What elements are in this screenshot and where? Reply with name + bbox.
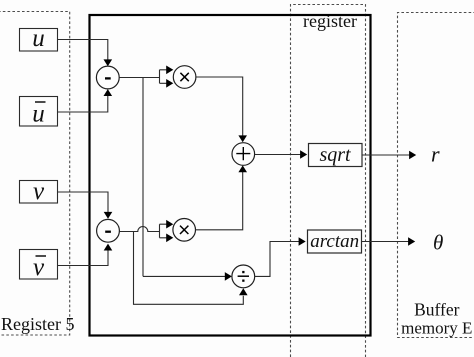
wire u-bar to subtractor S1 <box>58 96 108 113</box>
wire M1 output to adder <box>196 77 243 136</box>
svg-text:θ: θ <box>433 231 443 255</box>
Register 5 dashed box <box>0 12 70 336</box>
sqrt block <box>309 144 363 167</box>
svg-text:memory E: memory E <box>401 319 472 338</box>
multiplier M2 <box>173 219 196 242</box>
wire divider to arctan block <box>255 242 299 277</box>
register u box <box>20 29 58 52</box>
main processing box <box>90 15 371 336</box>
svg-text:v: v <box>33 178 45 205</box>
svg-text:r: r <box>431 142 440 167</box>
node T2 branch to divider bottom <box>134 232 244 305</box>
wire v to subtractor S2 <box>58 192 108 213</box>
adder A1 <box>232 143 255 166</box>
node T1 junction to divider line <box>142 78 144 277</box>
wire S2 output with hop over junction line <box>119 227 159 232</box>
svg-text:u: u <box>32 25 45 52</box>
subtractor S2 <box>97 219 120 242</box>
wire M2 output to adder bottom <box>196 172 243 230</box>
wire sqrt to output r <box>362 154 410 156</box>
svg-text:sqrt: sqrt <box>319 144 351 166</box>
wire junction to divider left input <box>143 275 225 277</box>
svg-text:Register 5: Register 5 <box>1 314 75 334</box>
wire S1 output to splitter <box>119 77 159 79</box>
register u-bar box <box>20 97 58 127</box>
subtractor S1 <box>96 66 119 89</box>
wire arctan to output theta <box>362 241 409 243</box>
Buffer memory E dashed box <box>398 13 474 338</box>
register v box <box>20 181 58 204</box>
svg-text:arctan: arctan <box>310 231 359 252</box>
divider D1 <box>232 265 255 288</box>
wire v-bar to subtractor S2 <box>58 250 108 266</box>
splitter bracket into multiplier M1 <box>160 70 167 84</box>
arctan block <box>308 230 362 253</box>
register dashed region <box>291 5 366 357</box>
svg-text:u: u <box>32 101 45 128</box>
splitter bracket into multiplier M2 <box>160 224 167 238</box>
svg-text:Buffer: Buffer <box>414 300 460 320</box>
multiplier M1 <box>173 66 196 89</box>
register v-bar box <box>20 250 58 280</box>
wire adder to sqrt block <box>255 154 301 156</box>
wire u to subtractor S1 <box>58 40 108 61</box>
svg-text:v: v <box>33 254 45 281</box>
